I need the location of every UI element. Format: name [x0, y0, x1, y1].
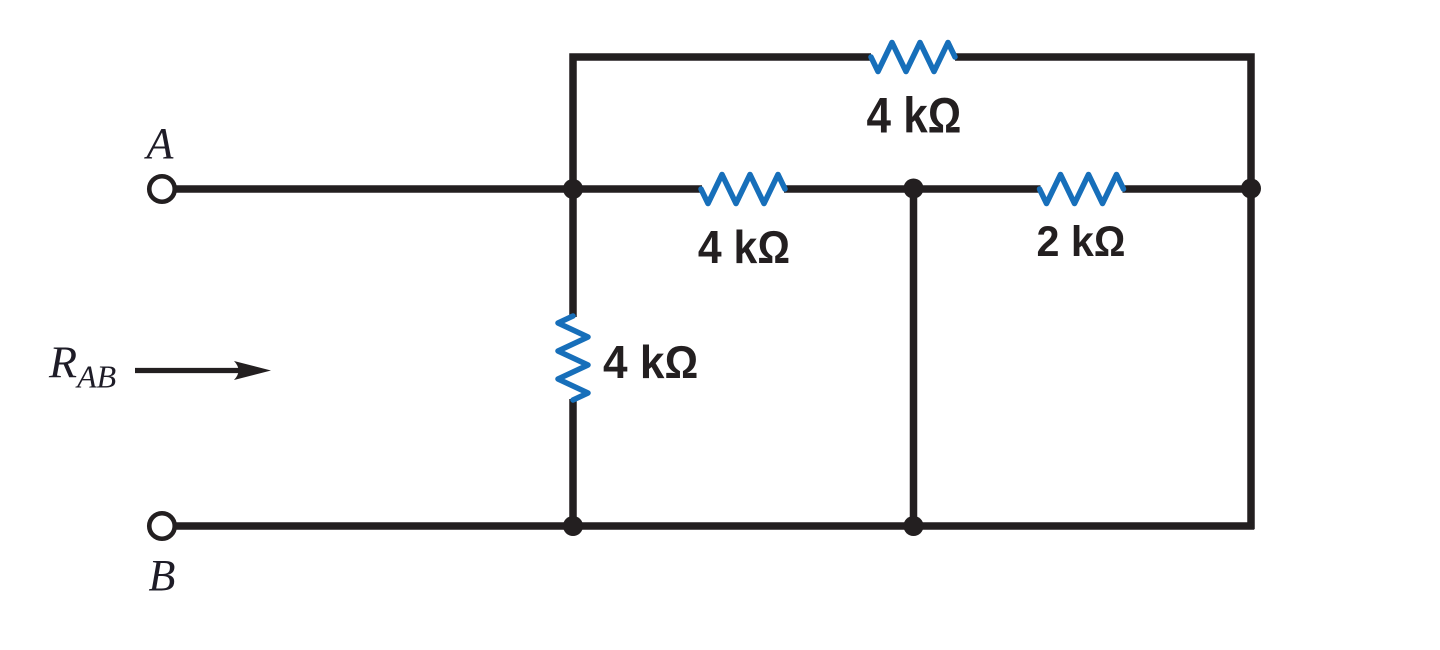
- svg-text:4 kΩ: 4 kΩ: [867, 87, 962, 143]
- wire left vertical: vertical resistor down to bottom rail: [569, 399, 577, 526]
- terminal B circle: [149, 513, 175, 539]
- wire A to node 1: [176, 185, 573, 193]
- wire node1 up and top rail left: [573, 57, 871, 192]
- arrow R_AB: [135, 361, 271, 380]
- wire left vertical: node1 down to vertical resistor: [569, 189, 577, 317]
- resistor 4 kOhm vertical: [558, 316, 588, 400]
- terminal A circle: [149, 176, 175, 202]
- svg-text:4 kΩ: 4 kΩ: [698, 223, 790, 274]
- wire top rail right and right vertical: [955, 57, 1251, 529]
- resistor 4 kOhm middle: [701, 175, 785, 204]
- junction dot bottom rail left: [563, 516, 583, 536]
- wire bottom rail: [176, 522, 1254, 530]
- svg-text:4 kΩ: 4 kΩ: [603, 336, 698, 388]
- resistor 4 kOhm top: [871, 43, 955, 72]
- svg-text:2 kΩ: 2 kΩ: [1036, 217, 1125, 265]
- wire middle rail: resistor to node 2: [784, 185, 914, 193]
- svg-text:B: B: [149, 551, 176, 600]
- resistor 2 kOhm: [1040, 175, 1124, 204]
- junction dot middle rail right: [1241, 179, 1261, 199]
- svg-text:A: A: [144, 119, 175, 168]
- junction dot node 1 (middle rail left): [563, 179, 583, 199]
- wire middle rail: node 2 to 2k resistor: [914, 185, 1041, 193]
- wire center vertical: node 2 down to bottom rail: [910, 189, 918, 526]
- junction dot bottom rail center: [904, 516, 924, 536]
- junction dot node 2 (middle rail center): [904, 179, 924, 199]
- wire middle rail: 2k resistor to right rail: [1123, 185, 1252, 193]
- wire middle rail: node1 to resistor: [573, 185, 702, 193]
